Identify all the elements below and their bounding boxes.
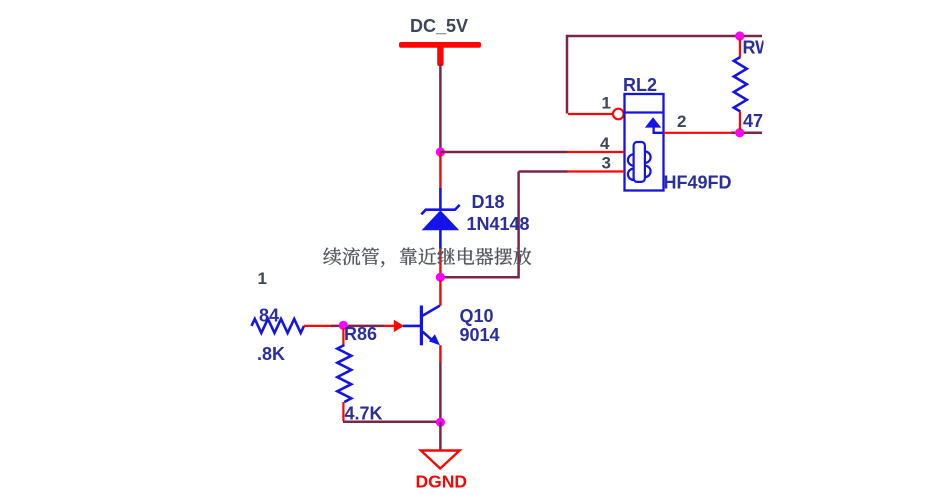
transistor Q10 [421, 306, 440, 346]
wire relay pin 2 to RV bottom [731, 132, 762, 135]
resistor R86 body [337, 328, 351, 421]
annotation text 续流管，靠近继电器摆放 [323, 247, 531, 267]
relay part number HF49FD [664, 173, 732, 193]
wire D18 anode to node E [439, 249, 441, 275]
relay RL2 contact arrow [645, 117, 664, 133]
node G junction dot [436, 418, 445, 427]
relay pin 2 lead [664, 132, 732, 134]
wire relay pin 3 to node D [519, 170, 568, 173]
wire emitter to node G [439, 362, 442, 422]
pin number 4 (RL2) [600, 134, 610, 153]
resistor R84 body [252, 319, 332, 333]
relay RL2 coil [628, 142, 651, 182]
node F junction dot [339, 321, 348, 330]
svg-text:.8K: .8K [257, 344, 285, 364]
wire R84 to Q10 base [331, 325, 384, 328]
resistor R86 value 4.7K [345, 403, 383, 423]
ground DGND symbol [421, 451, 460, 469]
node B junction dot (RV top) [735, 31, 744, 40]
svg-text:470: 470 [743, 111, 773, 131]
wire node G to DGND [439, 422, 442, 451]
svg-text:R86: R86 [344, 324, 377, 344]
svg-text:9014: 9014 [460, 325, 500, 345]
wire node A to relay pin 4 [440, 151, 567, 154]
diode value 1N4148 [467, 214, 530, 234]
svg-text:HF49FD: HF49FD [664, 173, 732, 193]
wire relay pin1 riser [567, 36, 762, 114]
svg-text:2: 2 [677, 112, 686, 131]
transistor Q10 label [460, 306, 494, 326]
resistor RW body [734, 39, 747, 131]
svg-text:RW: RW [743, 38, 773, 58]
diode D18 label [472, 192, 505, 212]
svg-text:RL2: RL2 [623, 75, 657, 95]
wire node E to Q10 collector [439, 280, 441, 306]
resistor R84 value label (clipped) [257, 344, 285, 364]
wire Q10 emitter [439, 345, 441, 362]
svg-text:1N4148: 1N4148 [467, 214, 530, 234]
relay RL2 body [625, 94, 664, 191]
power label DC_5V [410, 16, 468, 36]
resistor R84 label (clipped) [259, 306, 279, 326]
resistor value 470 label (clipped) [743, 111, 773, 131]
svg-text:4: 4 [600, 134, 610, 153]
node E junction dot [436, 273, 445, 282]
resistor R86 label [344, 324, 377, 344]
resistor RW label (clipped) [743, 38, 773, 58]
transistor value 9014 [460, 325, 500, 345]
svg-text:DC_5V: DC_5V [410, 16, 468, 36]
power symbol DC_5V bar [399, 42, 481, 66]
svg-text:DGND: DGND [416, 472, 468, 492]
relay RL2 label [623, 75, 657, 95]
pin number 3 (RL2) [602, 154, 611, 173]
node A junction dot [436, 147, 445, 156]
node C junction dot (RV bottom) [735, 128, 744, 137]
svg-text:D18: D18 [472, 192, 505, 212]
relay pin 4 lead [568, 151, 625, 153]
svg-text:3: 3 [602, 154, 611, 173]
relay pin 3 lead [568, 170, 625, 172]
svg-text:1: 1 [602, 94, 611, 113]
pin number 2 (RL2) [677, 112, 686, 131]
svg-text:4.7K: 4.7K [345, 403, 383, 423]
Q10 base input arrow [384, 320, 421, 332]
wire node D riser [444, 172, 519, 278]
ground DGND label [416, 472, 468, 492]
wire node A to D18 cathode [439, 152, 441, 190]
svg-text:Q10: Q10 [460, 306, 494, 326]
pin number 1 (RL2) [602, 94, 611, 113]
relay pin 1 lead [568, 109, 624, 120]
pin number 1 (R84) [258, 269, 267, 288]
svg-text:1: 1 [258, 269, 267, 288]
diode D18 (1N4148 zener symbol) [421, 188, 459, 249]
wire DC_5V to node A [439, 64, 442, 152]
wire R86 bottom to node G [343, 421, 441, 424]
